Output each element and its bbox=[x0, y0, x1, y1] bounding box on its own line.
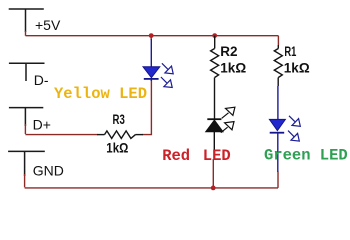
wire yellow LED top stub bbox=[150, 36, 152, 40]
svg-text:Red: Red bbox=[162, 147, 190, 165]
resistor R3 bbox=[97, 131, 143, 139]
svg-text:1kΩ: 1kΩ bbox=[220, 61, 246, 76]
LED yellow (blue symbol) bbox=[143, 39, 160, 81]
connector GND pin bbox=[8, 151, 45, 176]
svg-text:R3: R3 bbox=[113, 112, 126, 127]
svg-text:1kΩ: 1kΩ bbox=[284, 61, 310, 76]
wire R1 top stub bbox=[277, 36, 279, 45]
svg-text:R1: R1 bbox=[284, 44, 296, 59]
node junction dot R2 branch bbox=[212, 33, 217, 38]
wire yellow LED to R3 bbox=[143, 80, 153, 135]
node junction dot red LED / GND bbox=[211, 186, 216, 191]
connector D- pin bbox=[9, 63, 45, 81]
svg-text:Yellow LED: Yellow LED bbox=[54, 85, 147, 103]
svg-text:GND: GND bbox=[33, 162, 64, 178]
svg-text:1kΩ: 1kΩ bbox=[106, 140, 128, 155]
svg-text:R2: R2 bbox=[220, 44, 237, 59]
LED red (black symbol) bbox=[206, 119, 224, 159]
LED green emission arrows bbox=[288, 116, 300, 141]
wire D+ to R3 bbox=[25, 124, 97, 135]
node junction dot yellow branch bbox=[149, 33, 154, 38]
resistor R2 bbox=[211, 36, 219, 119]
svg-text:Green LED: Green LED bbox=[264, 147, 348, 165]
resistor R1 bbox=[274, 45, 282, 86]
connector D+ pin bbox=[9, 108, 43, 126]
wire GND rail bbox=[25, 172, 278, 188]
svg-text:D+: D+ bbox=[33, 116, 51, 132]
svg-text:D-: D- bbox=[34, 72, 49, 88]
LED yellow emission arrows bbox=[161, 63, 173, 87]
svg-text:+5V: +5V bbox=[35, 17, 61, 33]
wire red LED bottom bbox=[212, 159, 214, 188]
connector +5V pin bbox=[9, 9, 44, 32]
LED red emission arrows bbox=[221, 107, 235, 132]
LED green (blue symbol) bbox=[269, 86, 285, 172]
svg-text:LED: LED bbox=[203, 147, 231, 165]
wire +5V rail bbox=[26, 31, 279, 36]
